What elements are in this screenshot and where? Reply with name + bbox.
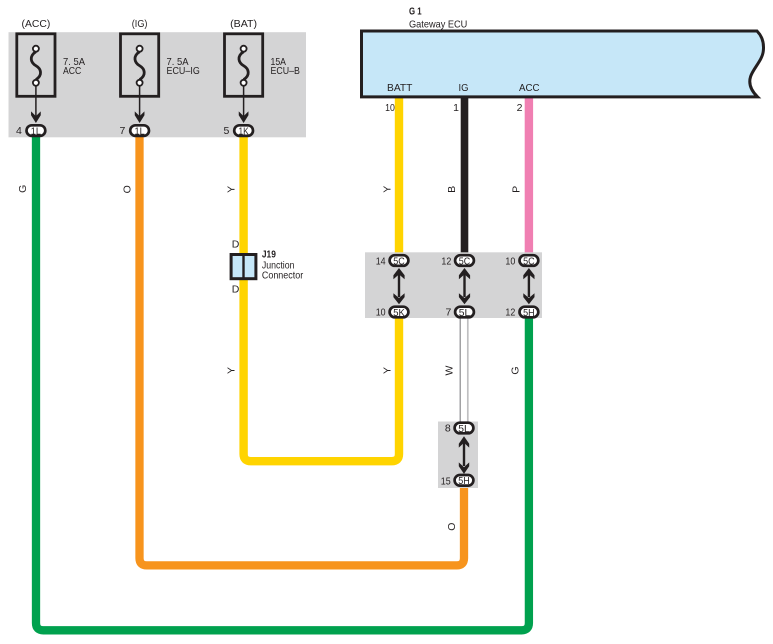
svg-text:1L: 1L (31, 126, 41, 138)
ECU G1 (Gateway ECU) (362, 6, 764, 97)
svg-text:(ACC): (ACC) (22, 18, 51, 30)
connector pin 12 (5H) (505, 307, 538, 319)
svg-text:10: 10 (376, 307, 386, 319)
svg-text:10: 10 (385, 102, 395, 114)
svg-text:(IG): (IG) (132, 18, 148, 30)
svg-text:1: 1 (453, 102, 459, 114)
svg-text:1K: 1K (239, 126, 249, 138)
svg-text:BATT: BATT (387, 82, 413, 94)
connector pin 14 (5C) (376, 255, 409, 267)
svg-text:G: G (17, 185, 29, 193)
svg-text:15: 15 (441, 475, 451, 487)
connector pin 12 (5C) (441, 255, 474, 267)
svg-text:5H: 5H (458, 475, 470, 487)
connector pin 4 (1L) (16, 125, 45, 138)
connector pin 7 (1L) (120, 125, 149, 138)
wire: orange O from fuse pin 7 (1L) to connector 15 (5H) (140, 137, 465, 565)
svg-text:(BAT): (BAT) (230, 18, 257, 30)
wire: yellow Y from ECU BATT pin 10 to connector 14 (5C) (395, 97, 403, 255)
wire: black B from ECU IG pin 1 to connector 12 (5C) (461, 97, 469, 255)
svg-text:Y: Y (381, 367, 393, 374)
svg-text:ECU–B: ECU–B (271, 65, 300, 77)
svg-text:5H: 5H (523, 307, 535, 319)
wire: green G from fuse pin 4 (1L) to connector 12 (5H) (36, 137, 529, 630)
svg-text:8: 8 (445, 423, 451, 435)
svg-text:ACC: ACC (63, 65, 82, 77)
arrow 5C-5L (459, 268, 470, 304)
svg-text:2: 2 (517, 102, 523, 114)
svg-text:D: D (232, 239, 240, 251)
svg-text:G: G (509, 366, 521, 374)
wire: pink P from ECU ACC pin 2 to connector 10 (5C) (525, 97, 533, 255)
svg-text:10: 10 (505, 255, 515, 267)
connector pin 7 (5L) (445, 307, 473, 319)
svg-text:B: B (446, 186, 458, 193)
svg-text:7: 7 (120, 125, 126, 137)
svg-text:5C: 5C (393, 256, 405, 268)
arrow 5C-5H (523, 268, 534, 304)
svg-text:Y: Y (226, 186, 238, 193)
fuse box band (9, 32, 307, 137)
svg-text:W: W (444, 365, 456, 375)
junction connector J19 (231, 239, 304, 296)
svg-text:Y: Y (381, 186, 393, 193)
svg-text:7: 7 (445, 307, 451, 319)
connector pin 8 (5L) (445, 423, 474, 435)
connector pin 5 (1K) (224, 125, 253, 138)
svg-text:D: D (232, 283, 240, 295)
svg-text:5L: 5L (458, 423, 470, 435)
svg-text:12: 12 (505, 307, 515, 319)
svg-text:Connector: Connector (262, 270, 304, 282)
svg-text:5C: 5C (523, 256, 535, 268)
svg-text:P: P (511, 186, 523, 193)
fuse ACC 7.5A (17, 18, 85, 123)
arrow 5L-5H (459, 436, 469, 474)
svg-text:Gateway ECU: Gateway ECU (409, 19, 467, 31)
svg-text:Y: Y (226, 367, 238, 374)
fuse BAT 15A (ECU-B) (225, 18, 300, 123)
svg-text:5C: 5C (459, 256, 471, 268)
svg-text:ECU–IG: ECU–IG (167, 65, 200, 77)
svg-text:5: 5 (224, 125, 230, 137)
fuse IG 7.5A (ECU-IG) (121, 18, 200, 123)
svg-text:5L: 5L (459, 307, 471, 319)
connector pin 15 (5H) (441, 475, 474, 487)
connector pin 10 (5C) (505, 255, 538, 267)
svg-text:1L: 1L (135, 126, 145, 138)
wire: yellow Y from connector 10 (5K) to fuse pin 5 (1K) via J19 (244, 137, 399, 461)
svg-text:12: 12 (441, 255, 451, 267)
svg-text:G 1: G 1 (409, 6, 422, 18)
svg-text:5K: 5K (393, 307, 405, 319)
svg-text:ACC: ACC (519, 82, 540, 94)
svg-text:4: 4 (16, 125, 22, 137)
connector box 5L/5H (438, 422, 478, 489)
svg-text:IG: IG (459, 82, 469, 94)
svg-text:O: O (446, 523, 458, 531)
svg-text:O: O (122, 185, 134, 193)
wire: white W from connector 7 (5L) to connector 8 (5L) (460, 317, 468, 422)
arrow 5C-5K (393, 268, 404, 304)
connector band 5C/5K/5L/5H (365, 252, 542, 318)
svg-text:14: 14 (376, 255, 386, 267)
connector pin 10 (5K) (376, 307, 409, 319)
